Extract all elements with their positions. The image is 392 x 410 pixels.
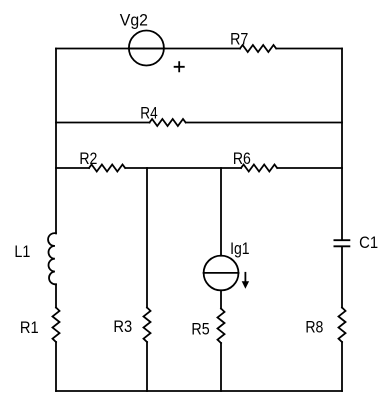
svg-text:R1: R1 — [20, 319, 39, 337]
wire: left vertical rail — [55, 49, 57, 234]
resistor R3 — [144, 308, 151, 342]
resistor R6 — [241, 165, 277, 172]
polarity + of Vg2 — [175, 62, 184, 71]
svg-text:R7: R7 — [230, 30, 248, 48]
wire: second horizontal right of R4 — [186, 122, 342, 124]
wire: bottom horizontal — [56, 390, 342, 392]
svg-text:Vg2: Vg2 — [120, 12, 148, 30]
svg-text:R8: R8 — [305, 319, 323, 337]
wire: right vertical rail top — [341, 49, 343, 241]
resistor R1 — [53, 308, 60, 342]
arrow of Ig1 — [244, 273, 246, 282]
wire: top horizontal left of Vg2 — [56, 48, 240, 50]
resistor R2 — [89, 165, 125, 172]
wire: Ig1 branch vertical above circle — [220, 168, 222, 256]
resistor R7 — [240, 45, 276, 52]
resistor R8 — [339, 308, 346, 342]
svg-text:R4: R4 — [140, 104, 157, 122]
svg-text:R5: R5 — [191, 321, 209, 339]
wire: left vertical between L1 and R1 — [55, 284, 57, 307]
capacitor C1 — [334, 240, 349, 246]
wire: right vertical below R8 — [341, 342, 343, 391]
wire: third horizontal left — [56, 167, 89, 169]
resistor R4 — [150, 119, 186, 126]
voltage source Vg2 — [129, 31, 164, 66]
wire: R3 branch vertical above resistor — [146, 168, 148, 308]
current source Ig1 — [204, 256, 239, 291]
wire: R5 branch vertical below resistor — [220, 343, 222, 391]
wire: third horizontal right of R6 — [278, 167, 343, 169]
svg-text:C1: C1 — [359, 234, 378, 252]
svg-text:R3: R3 — [113, 318, 132, 336]
svg-text:R2: R2 — [79, 150, 97, 168]
wire: top horizontal right of R7 — [277, 48, 343, 50]
wire: Ig1 branch vertical below circle — [220, 290, 222, 308]
wire: R3 branch vertical below resistor — [146, 342, 148, 391]
inductor L1 — [48, 233, 56, 284]
wire: left vertical below R1 — [55, 342, 57, 391]
svg-text:R6: R6 — [233, 150, 251, 168]
wire: third horizontal between R2 and R6 — [126, 167, 242, 169]
svg-text:L1: L1 — [14, 243, 30, 261]
wire: right vertical between C1 and R8 — [341, 247, 343, 308]
wire: second horizontal (R4 row) left — [56, 122, 150, 124]
svg-text:Ig1: Ig1 — [230, 240, 250, 258]
resistor R5 — [218, 309, 225, 343]
